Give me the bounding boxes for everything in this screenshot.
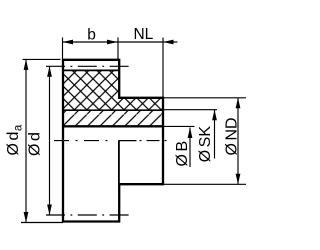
svg-text:Øda: Øda — [5, 124, 25, 155]
svg-text:Ød: Ød — [27, 132, 44, 156]
svg-text:ØB: ØB — [174, 141, 191, 167]
svg-text:b: b — [87, 27, 96, 44]
svg-text:ØND: ØND — [224, 117, 241, 155]
svg-text:NL: NL — [133, 26, 153, 43]
svg-text:ØSK: ØSK — [197, 126, 214, 163]
